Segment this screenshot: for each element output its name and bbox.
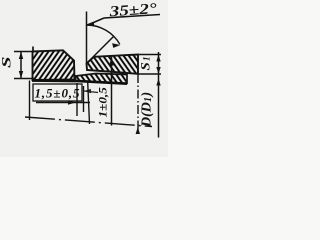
root face vertical ray (angle vertex at root) — [86, 12, 88, 64]
arc arrowhead at vertical ray — [86, 22, 95, 27]
bevel face ray extended from root — [87, 37, 114, 64]
ring bottom edge thick — [76, 81, 127, 84]
S1 dimension line — [158, 52, 160, 138]
leader underline — [104, 15, 160, 19]
extension verticals below gap — [76, 83, 78, 116]
S dimension extension top — [14, 51, 34, 53]
left lower vertical line to centerline — [29, 81, 31, 121]
S1 extension top — [139, 54, 161, 56]
vertical D line with up arrow — [111, 57, 113, 126]
dimension line under box with right arrow — [36, 102, 90, 104]
left plate top-left overshoot tick — [32, 47, 34, 53]
left plate S (hatched body) — [33, 50, 75, 80]
D(D1) line dashed — [137, 74, 139, 134]
arc arrowhead at bevel ray — [112, 43, 120, 48]
angle arc between rays — [87, 25, 120, 44]
centerline dash-dot — [25, 117, 152, 127]
extension vertical from root to centerline — [88, 82, 90, 124]
right pipe wall S1 (hatched) — [87, 55, 139, 74]
S1 extension bottom — [139, 73, 161, 75]
scan noise overlay — [0, 0, 1, 1]
leader slant to arc — [90, 18, 104, 24]
box around 1,5±0,5 — [33, 84, 82, 101]
S dimension line with arrows — [20, 52, 22, 79]
left plate bottom edge (thick) — [32, 79, 76, 82]
S dimension extension bottom — [14, 78, 34, 80]
backing ring — [76, 74, 128, 84]
gap dimension stub with left arrow — [84, 91, 98, 93]
